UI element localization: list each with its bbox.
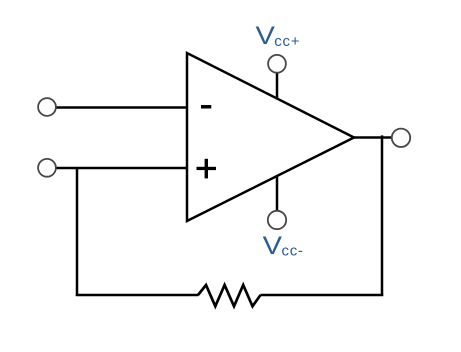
op-amp U1 [187, 53, 354, 221]
wire inverting input [55, 106, 188, 109]
resistor R1 [198, 285, 261, 306]
wire bottom right [261, 294, 384, 297]
inverting input label - [201, 105, 211, 109]
non-inverting input label + [197, 159, 217, 179]
wire Vcc+ [276, 73, 279, 100]
terminal non-inverting input [38, 159, 56, 177]
terminal Vcc+ [268, 55, 286, 73]
wire Vcc- [276, 175, 279, 211]
svg-text:Vcc-: Vcc- [263, 232, 304, 260]
wire non-inverting input [56, 167, 189, 170]
wire feedback left vertical [76, 168, 79, 296]
terminal Vcc- [268, 211, 286, 229]
wire output feedback vertical [381, 135, 384, 296]
wire bottom left [76, 294, 199, 297]
wire output [353, 136, 392, 139]
terminal output [392, 129, 410, 147]
svg-text:Vcc+: Vcc+ [256, 22, 301, 50]
terminal inverting input [38, 98, 56, 116]
